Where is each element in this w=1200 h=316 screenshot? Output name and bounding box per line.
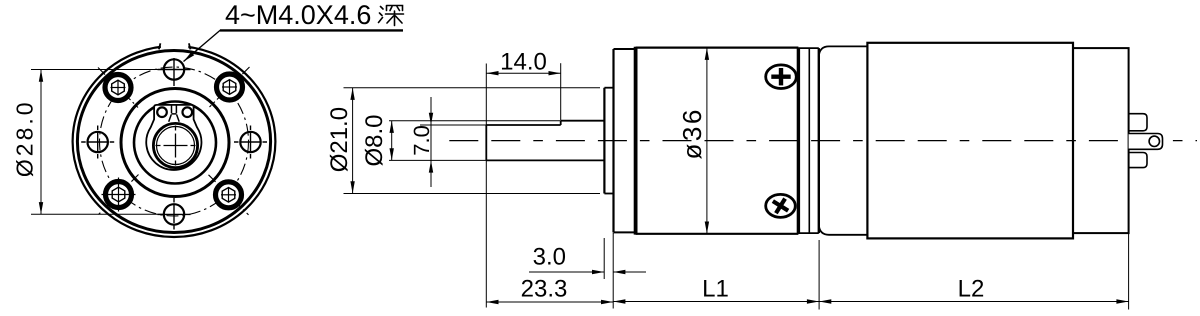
- svg-text:Ø8.0: Ø8.0: [361, 114, 388, 166]
- svg-text:7.0: 7.0: [409, 125, 434, 156]
- hole crosshairs: [81, 58, 267, 230]
- rear cap: [1073, 48, 1129, 233]
- terminal bump lower: [1129, 153, 1147, 168]
- retainer plate with clip ring: [146, 105, 201, 170]
- dim Ø8.0: [389, 121, 561, 161]
- centerline: [449, 140, 1197, 142]
- hex socket screw top-left: [98, 68, 138, 108]
- plate slot: [169, 105, 180, 122]
- dim 23.3: [486, 233, 613, 309]
- dim Ø28.0: [31, 70, 163, 215]
- svg-text:L2: L2: [958, 276, 985, 303]
- svg-text:ø36: ø36: [677, 107, 707, 159]
- terminal hole: [1149, 136, 1159, 146]
- svg-text:Ø21.0: Ø21.0: [326, 107, 353, 172]
- phillips screw bottom: [766, 194, 796, 218]
- svg-text:Ø28.0: Ø28.0: [11, 99, 37, 177]
- dim 14.0: [486, 63, 560, 307]
- dim 3.0: [529, 238, 646, 279]
- hex socket screw bottom-left: [99, 175, 139, 215]
- svg-text:23.3: 23.3: [521, 276, 568, 303]
- inner case circle: [77, 51, 270, 233]
- outer ring end cap right: [189, 43, 191, 49]
- bolt circle (dash-dot): [100, 67, 249, 216]
- gear case: [636, 46, 799, 48]
- dim L1: [613, 240, 819, 310]
- dim Ø21.0: [344, 88, 601, 194]
- shaft inner circle: [157, 127, 195, 165]
- dim L2: [819, 233, 1129, 309]
- hex socket screw top-right: [210, 67, 250, 107]
- dim ø36: [706, 48, 708, 234]
- terminal bump upper: [1129, 114, 1147, 131]
- erase outer arc at top gap: [161, 41, 188, 49]
- outer case circle: [73, 46, 276, 237]
- hand-drawn CJK 深: [379, 6, 404, 26]
- terminal tab with hole: [1129, 134, 1163, 150]
- svg-text:4~M4.0X4.6: 4~M4.0X4.6: [225, 0, 371, 30]
- M4 tapped holes (4x M4.0X4.6): [88, 59, 261, 224]
- leader 4~M4.0X4.6: [184, 30, 404, 61]
- motor main body: [867, 43, 1073, 239]
- svg-text:14.0: 14.0: [500, 49, 547, 76]
- svg-text:L1: L1: [702, 276, 729, 303]
- rings: [798, 47, 818, 49]
- svg-text:3.0: 3.0: [533, 244, 566, 271]
- front plate: [612, 49, 614, 232]
- boss circle outer: [121, 89, 229, 197]
- ear hole right: [183, 107, 193, 117]
- hex socket screws: [98, 67, 250, 215]
- shaft: [485, 125, 487, 160]
- phillips screw top: [766, 65, 797, 89]
- shaft crosshair: [156, 126, 196, 166]
- dim 7.0: [420, 97, 486, 187]
- outer ring end cap left: [159, 43, 161, 49]
- motor front bell: [819, 46, 868, 56]
- hex socket screw bottom-right: [209, 175, 249, 215]
- boss: [603, 88, 605, 194]
- boss circle inner: [134, 102, 216, 184]
- ear hole left: [157, 107, 167, 117]
- shaft circle: [153, 123, 197, 167]
